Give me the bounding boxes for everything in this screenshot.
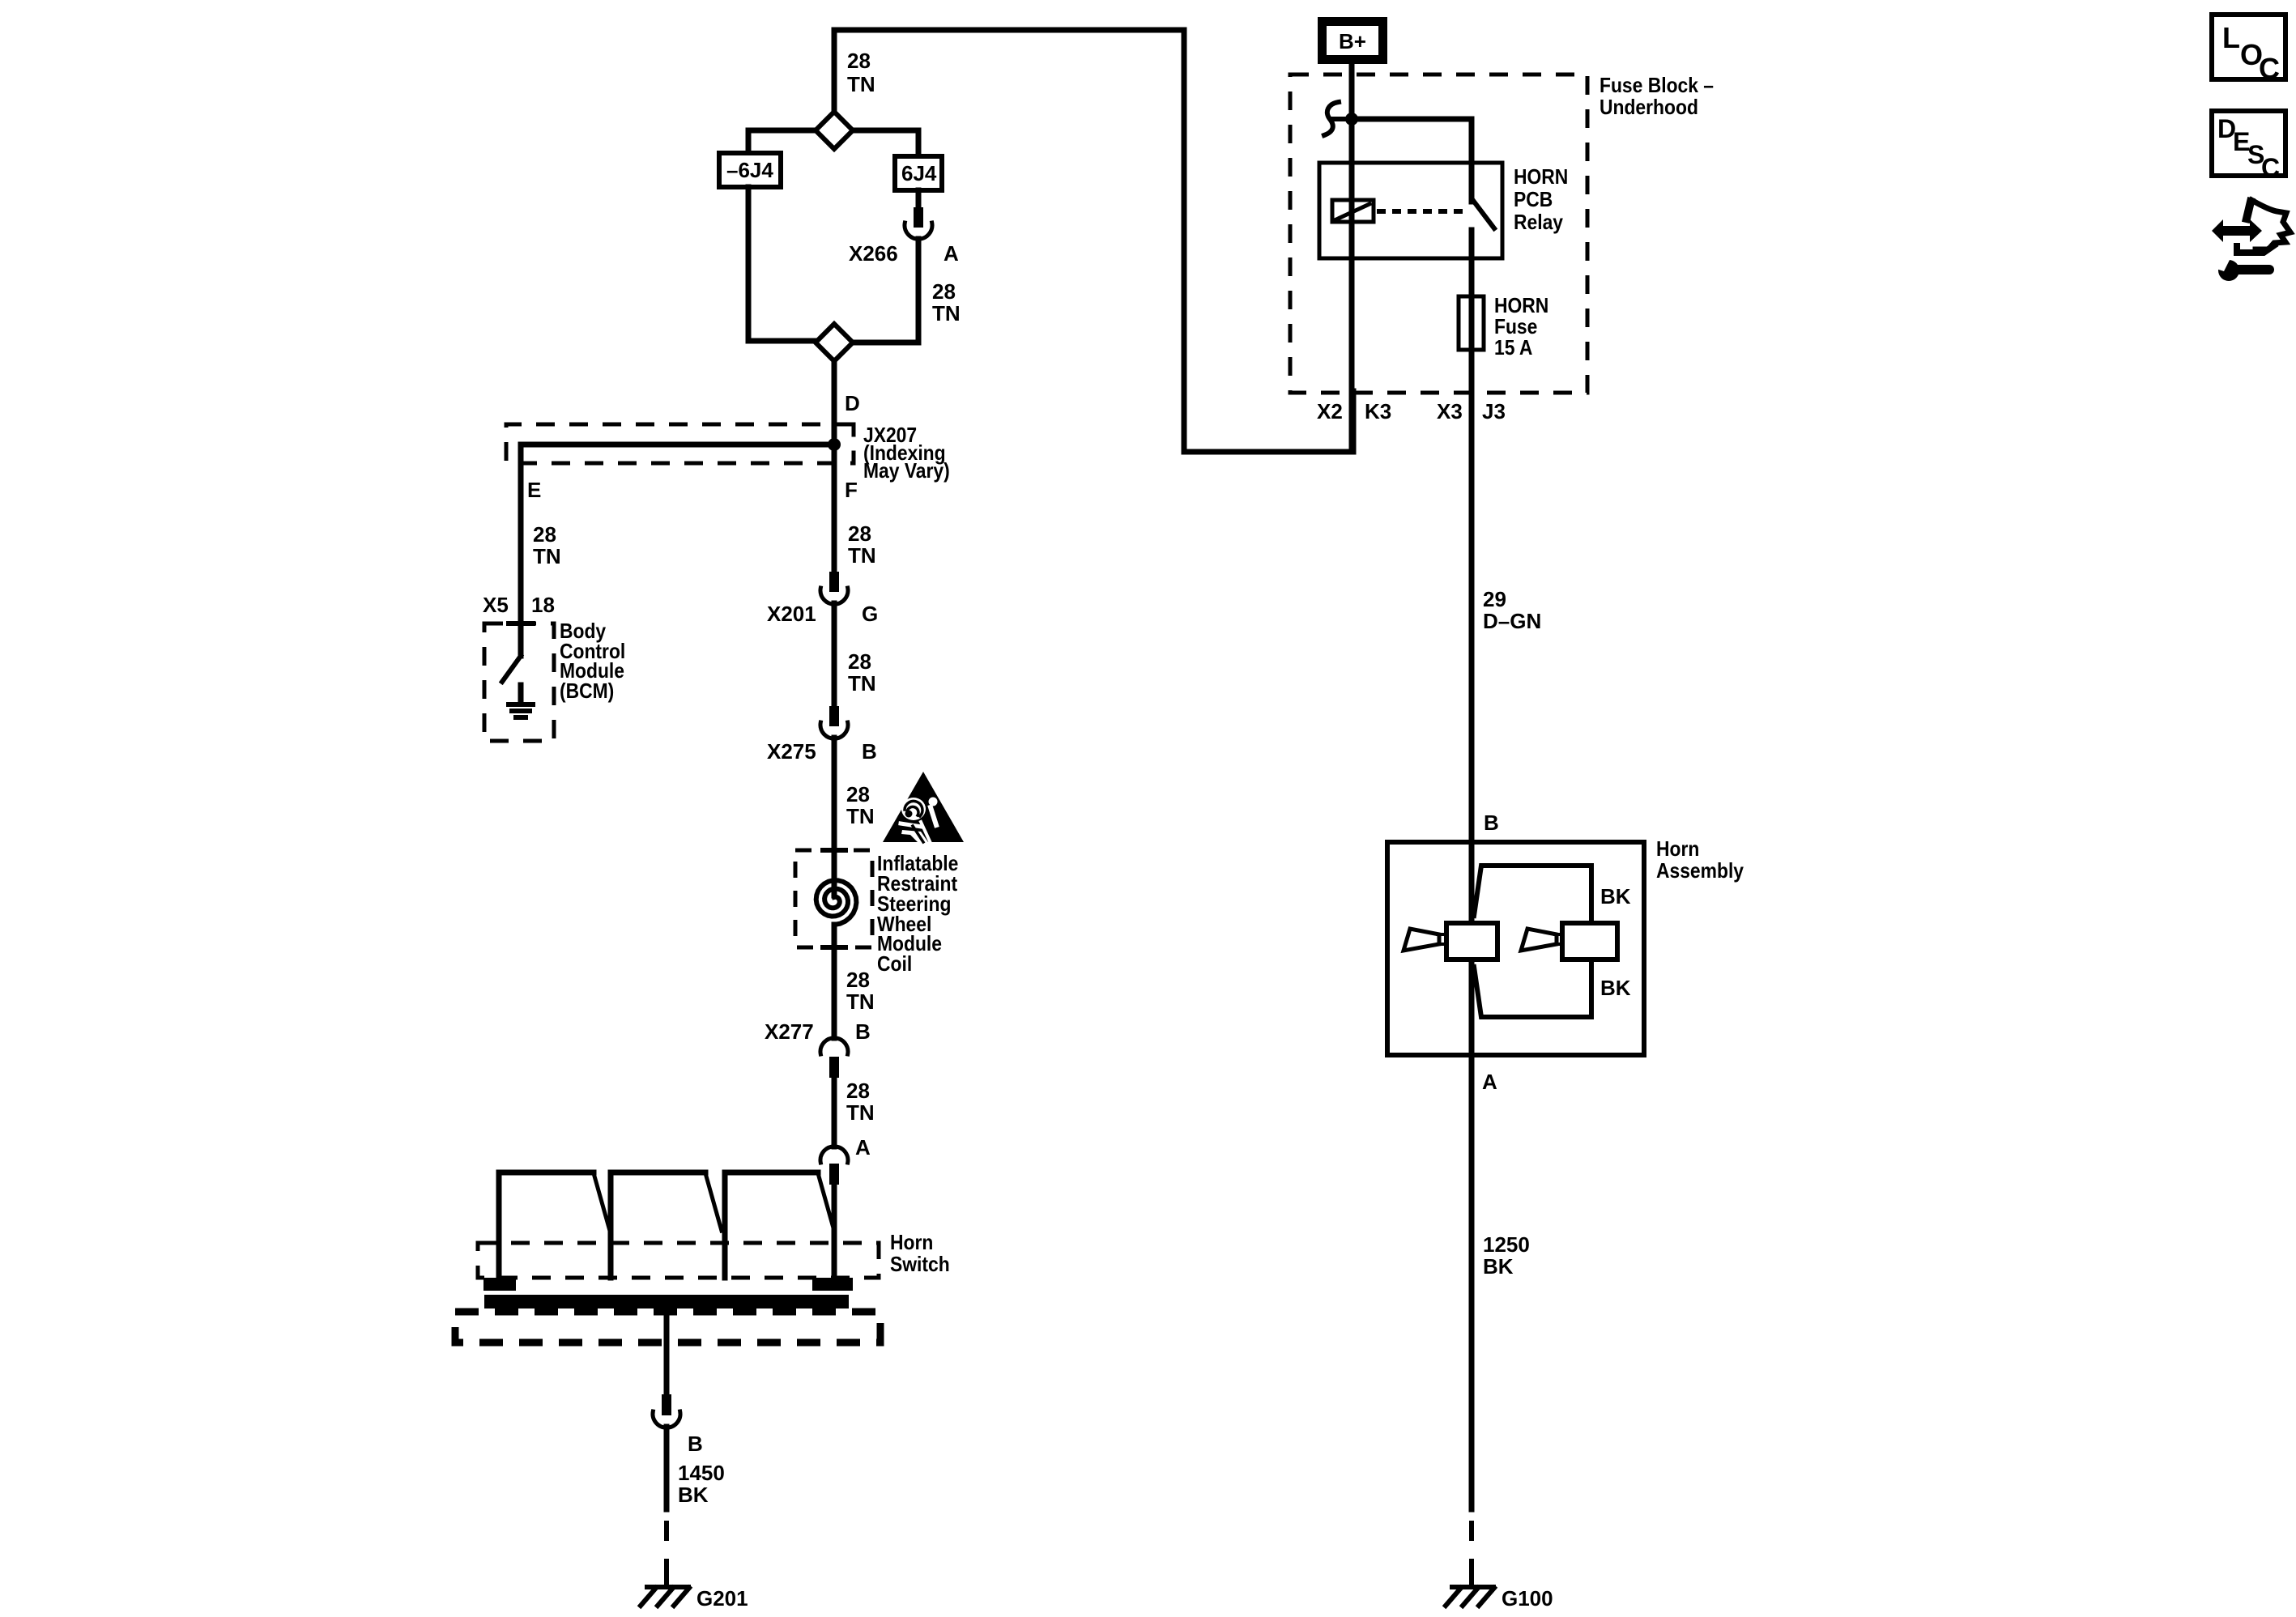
wire down from top run to splice diamond (832, 30, 837, 113)
svg-text:X266: X266 (849, 241, 898, 266)
connector X275 female cup (820, 722, 848, 738)
svg-text:X275: X275 (767, 739, 816, 764)
svg-text:G100: G100 (1502, 1586, 1553, 1611)
relay coil box (1332, 200, 1374, 222)
relay actuation dashed link (1377, 209, 1467, 214)
connector B female cup (653, 1411, 680, 1428)
svg-text:15 A: 15 A (1494, 337, 1533, 360)
svg-text:D–GN: D–GN (1483, 609, 1541, 633)
splice diamond bottom (816, 324, 853, 361)
icon routing arrow band (2247, 202, 2251, 219)
svg-text:C: C (2261, 153, 2280, 182)
svg-text:TN: TN (846, 1100, 875, 1125)
wire X275 to coil (832, 738, 837, 850)
wire re-draw through coil (1349, 200, 1355, 222)
svg-text:6J4: 6J4 (901, 161, 937, 185)
svg-text:L: L (2222, 21, 2240, 54)
node JX207 junction dot (828, 438, 841, 451)
wire right vertical down to relay loop (1182, 30, 1187, 452)
connector X277 male pin (829, 1057, 839, 1078)
connector X277 female dome (820, 1038, 848, 1054)
wire diamond to right branch (853, 130, 918, 154)
ground G201 (641, 1576, 689, 1606)
svg-text:Relay: Relay (1514, 211, 1563, 235)
svg-text:(BCM): (BCM) (560, 680, 614, 704)
wire into bottom diamond right (853, 340, 918, 346)
icon double arrow (2212, 219, 2262, 242)
connector X275 male pin (829, 706, 839, 726)
horn parallel loop top (1474, 866, 1591, 926)
svg-text:28: 28 (847, 49, 871, 73)
wire E branch down to BCM (518, 445, 524, 623)
horn switch common bar (484, 1295, 849, 1308)
svg-text:Fuse Block –: Fuse Block – (1600, 74, 1714, 98)
BCM terminal tick (509, 621, 533, 626)
svg-text:X201: X201 (767, 602, 816, 626)
svg-text:K3: K3 (1365, 399, 1391, 423)
wire B+ feed down through coil (1349, 64, 1355, 452)
wire horn assembly down (1469, 1055, 1475, 1509)
wire X266 down to diamond (916, 239, 922, 343)
svg-text:TN: TN (847, 72, 875, 96)
svg-text:G201: G201 (696, 1586, 748, 1611)
svg-text:–6J4: –6J4 (726, 158, 773, 182)
horn switch dashed strip (478, 1243, 879, 1278)
svg-text:E: E (527, 478, 541, 502)
connector X266 female cup (905, 223, 932, 239)
svg-text:28: 28 (846, 1079, 870, 1103)
wire into BCM switch (518, 623, 524, 656)
wire switch upper (1469, 119, 1475, 202)
svg-text:1250: 1250 (1483, 1232, 1530, 1257)
horn switch cell 1 (499, 1172, 594, 1278)
svg-text:G: G (862, 602, 878, 626)
wire X201 to X275 (832, 603, 837, 706)
svg-text:BK: BK (1483, 1254, 1514, 1279)
svg-text:B: B (688, 1432, 703, 1456)
wire diamond down to JX207 (832, 361, 837, 445)
svg-text:28: 28 (846, 968, 870, 992)
wire K3 stub up into fuse block (1351, 391, 1357, 452)
svg-text:TN: TN (932, 301, 961, 326)
svg-text:BK: BK (1600, 976, 1631, 1000)
svg-text:29: 29 (1483, 587, 1506, 611)
icon wrench (2211, 256, 2274, 281)
svg-text:HORN: HORN (1494, 295, 1548, 318)
svg-text:B: B (855, 1019, 871, 1044)
svg-text:B+: B+ (1339, 29, 1366, 53)
connector A female dome (820, 1147, 848, 1163)
wire bottom horizontal to K3 (1184, 449, 1353, 455)
svg-text:BK: BK (1600, 884, 1631, 908)
horn right bell (1521, 929, 1557, 951)
coil box wire ticks (823, 850, 846, 947)
horn switch cell 3 (725, 1172, 818, 1278)
connector X266 male pin (914, 207, 923, 228)
svg-text:1450: 1450 (678, 1461, 725, 1485)
fusible element (1324, 102, 1339, 135)
svg-text:Underhood: Underhood (1600, 96, 1698, 120)
wire through JX207 down (832, 445, 837, 572)
connector X201 female cup (820, 588, 848, 604)
icon routing arrow outline (2251, 200, 2290, 249)
svg-text:TN: TN (846, 804, 875, 828)
svg-text:28: 28 (932, 279, 956, 304)
fuse HORN 15A body (1459, 296, 1484, 350)
svg-text:A: A (1482, 1070, 1497, 1094)
connector X201 male pin (829, 572, 839, 592)
JX207 right corner stubs (852, 424, 856, 463)
BCM dashed box (484, 623, 554, 741)
horn parallel loop bottom (1474, 958, 1591, 1017)
LOC legend box (2212, 15, 2285, 79)
wire out of coil (832, 925, 837, 1038)
fuse block underhood dashed box (1290, 74, 1587, 393)
BCM switch blade (502, 656, 521, 682)
horn switch contact pad left (483, 1278, 516, 1291)
horn switch blade 1 (594, 1173, 610, 1231)
svg-text:X2: X2 (1317, 399, 1343, 423)
svg-text:PCB: PCB (1514, 189, 1553, 212)
horn left bell (1404, 929, 1439, 951)
svg-text:A: A (855, 1135, 871, 1160)
svg-text:TN: TN (846, 989, 875, 1014)
svg-text:X277: X277 (765, 1019, 814, 1044)
svg-text:28: 28 (848, 649, 871, 674)
wire dashed to G100 (1469, 1521, 1474, 1581)
wire into bottom diamond left (748, 338, 816, 344)
node feed junction (1345, 113, 1358, 126)
svg-text:Fuse: Fuse (1494, 316, 1537, 339)
wire switch lower (1469, 230, 1475, 299)
svg-text:B: B (862, 739, 877, 764)
svg-text:Horn: Horn (1656, 838, 1699, 862)
wire through horn assembly (1469, 842, 1475, 926)
fuse -6J4 box (719, 153, 781, 187)
wire diamond to left branch (748, 130, 816, 151)
svg-text:D: D (845, 391, 860, 415)
horn switch blade 2 (705, 1173, 722, 1231)
clockspring coil spiral (816, 880, 857, 925)
svg-text:TN: TN (848, 543, 876, 568)
wire into coil (832, 850, 837, 896)
wire through fuse (1469, 299, 1475, 393)
svg-text:TN: TN (848, 671, 876, 696)
wire A down to contact (832, 1185, 837, 1279)
svg-text:Switch: Switch (890, 1253, 950, 1277)
horn right element box (1562, 923, 1617, 960)
B+ power feed box (1323, 22, 1383, 60)
svg-text:A: A (944, 241, 959, 266)
horn assembly box (1387, 842, 1644, 1055)
horn switch contact pad right (812, 1278, 853, 1291)
svg-text:Horn: Horn (890, 1232, 933, 1255)
BCM internal ground (518, 685, 524, 703)
wire left branch down to diamond (746, 187, 752, 341)
svg-text:28: 28 (846, 782, 870, 806)
wire top horizontal run (834, 28, 1184, 33)
wire JX207 bus (521, 442, 834, 448)
svg-text:C: C (2259, 52, 2280, 85)
svg-text:Coil: Coil (877, 953, 912, 977)
svg-text:28: 28 (533, 522, 556, 547)
horn switch cell 2 (611, 1172, 705, 1278)
wire bar to B connector (664, 1308, 670, 1394)
svg-text:X5: X5 (483, 593, 509, 617)
svg-text:BK: BK (678, 1483, 709, 1507)
wire B down (664, 1427, 670, 1509)
svg-text:28: 28 (848, 521, 871, 546)
connector A male pin (829, 1164, 839, 1185)
svg-text:TN: TN (533, 544, 561, 568)
relay K3 box (1319, 163, 1502, 258)
horn switch blade 3 (818, 1173, 834, 1231)
wire feed to relay switch (1352, 117, 1472, 122)
svg-text:HORN: HORN (1514, 166, 1568, 189)
ground G100 (1446, 1576, 1494, 1606)
coil dashed box (795, 850, 872, 947)
wire 6J4 to X266 (916, 190, 922, 207)
DESC legend box (2212, 111, 2285, 176)
relay switch blade (1474, 202, 1494, 228)
SRS warning triangle (883, 772, 964, 842)
svg-text:May Vary): May Vary) (863, 460, 950, 483)
svg-text:F: F (845, 478, 858, 502)
svg-text:B: B (1484, 811, 1499, 835)
wire dashed to G201 (664, 1521, 669, 1581)
wire X277 to horn switch (832, 1078, 837, 1147)
svg-text:18: 18 (531, 593, 555, 617)
fuse 6J4 box (895, 156, 942, 190)
splice diamond top (816, 112, 853, 149)
svg-text:X3: X3 (1437, 399, 1463, 423)
connector B male pin (662, 1394, 671, 1415)
svg-text:J3: J3 (1482, 399, 1506, 423)
horn pad lower dashed box (455, 1312, 880, 1343)
icon routing arrow bottom bar (2237, 245, 2274, 253)
JX207 splice pack dashed box (506, 424, 854, 463)
svg-text:Assembly: Assembly (1656, 860, 1744, 883)
wire J3 down to horn assembly (1469, 393, 1475, 842)
relay coil slash (1336, 204, 1370, 219)
horn left element box (1446, 923, 1497, 960)
